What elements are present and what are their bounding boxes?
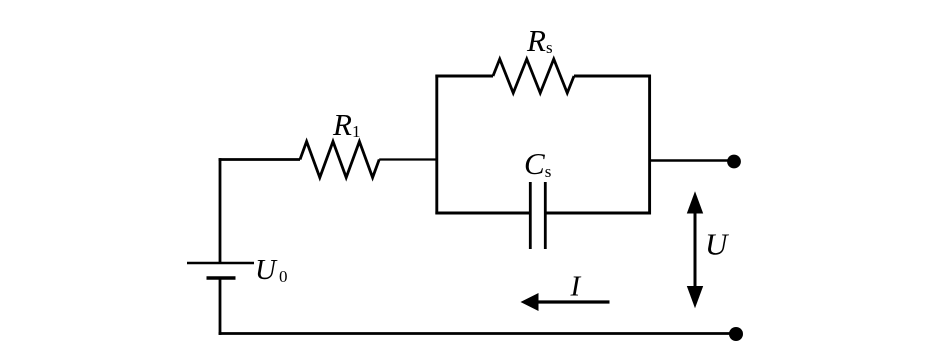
wire: top-left horizontal from battery branch node to R1 (219, 158, 300, 161)
capacitor Cs (530, 182, 545, 249)
node: top output terminal (727, 155, 741, 169)
wire: battery node down to positive plate (219, 158, 222, 263)
resistor R1 (300, 142, 379, 178)
wire: parallel branch left vertical edge (435, 75, 438, 215)
wire: R1 to parallel network left edge (379, 158, 437, 160)
svg-text:Cs: Cs (524, 146, 551, 181)
node: bottom output terminal (729, 327, 743, 341)
voltage arrow U (double-headed) (687, 191, 703, 308)
wire: bottom rail (219, 332, 736, 335)
current arrow I (521, 293, 610, 311)
wire: output lead to top terminal (650, 159, 731, 162)
svg-text:U0: U0 (255, 254, 287, 286)
svg-text:U: U (705, 227, 730, 262)
wire: parallel branch bottom edge left segment (435, 212, 530, 215)
wire: parallel branch bottom edge right segment (545, 212, 651, 215)
wire: battery negative plate down to bottom rail (219, 278, 222, 335)
wire: parallel branch right vertical edge (648, 75, 651, 215)
resistor Rs (493, 59, 574, 93)
svg-text:R1: R1 (332, 107, 360, 142)
svg-text:I: I (570, 271, 582, 303)
svg-text:Rs: Rs (526, 23, 553, 58)
battery U0 (187, 263, 254, 278)
wire: parallel branch top edge right segment (574, 75, 651, 78)
wire: parallel branch top edge left segment (435, 75, 493, 78)
